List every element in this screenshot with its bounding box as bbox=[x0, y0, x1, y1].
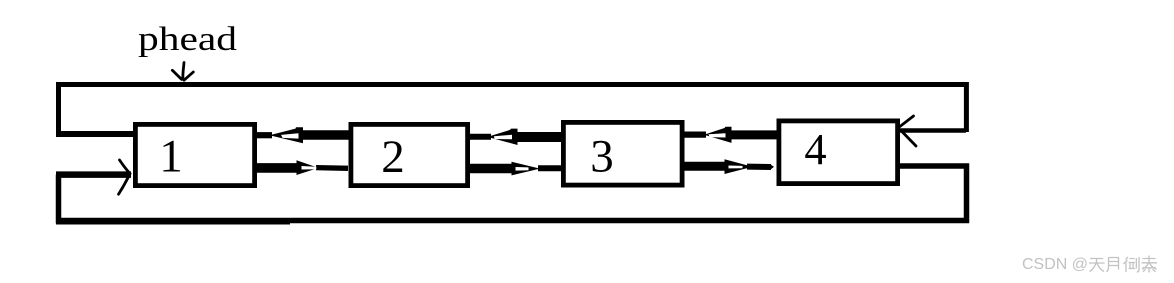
wire: top loop (node1 prev out, over the top, to right side) bbox=[59, 85, 967, 138]
wire: stub into node1 left (y134) bbox=[56, 131, 134, 137]
svg-text:4: 4 bbox=[804, 124, 826, 174]
glyph nai bbox=[1142, 256, 1158, 273]
prev arrow node3 to node2 bbox=[468, 129, 562, 145]
next arrow node2 to node3 bbox=[468, 162, 562, 176]
glyph tian bbox=[1089, 259, 1105, 272]
next arrow node1 to node2 bbox=[255, 160, 348, 175]
node box 1 bbox=[135, 124, 254, 185]
wire: bottom loop (node4 next out, under the bottom, to node1 left) bbox=[59, 166, 967, 221]
wire: stub into node1 lower left (y174.6) bbox=[56, 171, 131, 178]
node box 4 bbox=[779, 121, 898, 184]
arrowhead into node1 (hand drawn) bbox=[119, 160, 131, 194]
node box 3 bbox=[563, 122, 682, 185]
svg-text:1: 1 bbox=[159, 131, 183, 183]
watermark CJK name (drawn strokes) bbox=[1089, 256, 1157, 273]
next arrow node3 to node4 bbox=[683, 159, 774, 174]
prev arrow node4 to node3 bbox=[683, 127, 777, 143]
prev arrow node2 to node1 bbox=[256, 127, 349, 143]
wire: into node4 right (y129) bbox=[899, 128, 966, 133]
glyph yue bbox=[1107, 258, 1119, 273]
phead down arrow bbox=[172, 63, 193, 81]
arrowhead into node4 (hand drawn) bbox=[900, 116, 917, 146]
svg-text:CSDN @: CSDN @ bbox=[1022, 256, 1088, 273]
svg-text:2: 2 bbox=[381, 131, 405, 183]
node box 2 bbox=[351, 124, 468, 185]
svg-text:phead: phead bbox=[138, 21, 237, 58]
svg-text:3: 3 bbox=[590, 131, 614, 183]
wire: bottom line left thicker segment bbox=[56, 218, 290, 224]
glyph yu bbox=[1124, 257, 1140, 272]
